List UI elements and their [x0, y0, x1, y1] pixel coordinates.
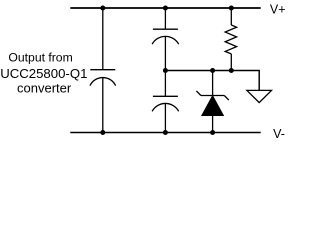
capacitor C1 (polarized, left) [90, 70, 116, 86]
capacitor C2 (polarized, middle top) [152, 29, 179, 44]
capacitor C3 (polarized, middle bottom) [152, 96, 179, 111]
wire middle branch mid lead [164, 37, 166, 97]
junction node bottom-left [100, 130, 105, 135]
ground [247, 90, 272, 102]
wire mid horizontal net [165, 71, 259, 91]
wire left branch upper lead [102, 8, 104, 70]
junction node mid-zener [210, 68, 215, 73]
wire V- bottom rail [70, 132, 260, 134]
wire middle branch lower lead [164, 104, 166, 133]
junction node bottom-zener [210, 130, 215, 135]
zener diode D1 [196, 71, 228, 133]
label Output from UCC25800-Q1 converter [0, 50, 87, 95]
junction node bottom-mid [163, 130, 168, 135]
svg-text:converter: converter [17, 81, 72, 96]
wire middle branch upper lead [164, 8, 166, 29]
junction node mid-left [163, 68, 168, 73]
wire V+ top rail [70, 7, 260, 9]
junction node top-mid [163, 6, 168, 11]
junction node top-left [100, 6, 105, 11]
svg-text:Output from: Output from [8, 50, 72, 64]
svg-text:V-: V- [273, 127, 285, 141]
svg-text:UCC25800-Q1: UCC25800-Q1 [0, 66, 87, 81]
resistor R1 [225, 8, 236, 71]
wire left branch lower lead [102, 78, 104, 133]
junction node top-right [229, 6, 234, 11]
svg-text:V+: V+ [270, 2, 286, 16]
junction node mid-resistor [229, 68, 234, 73]
